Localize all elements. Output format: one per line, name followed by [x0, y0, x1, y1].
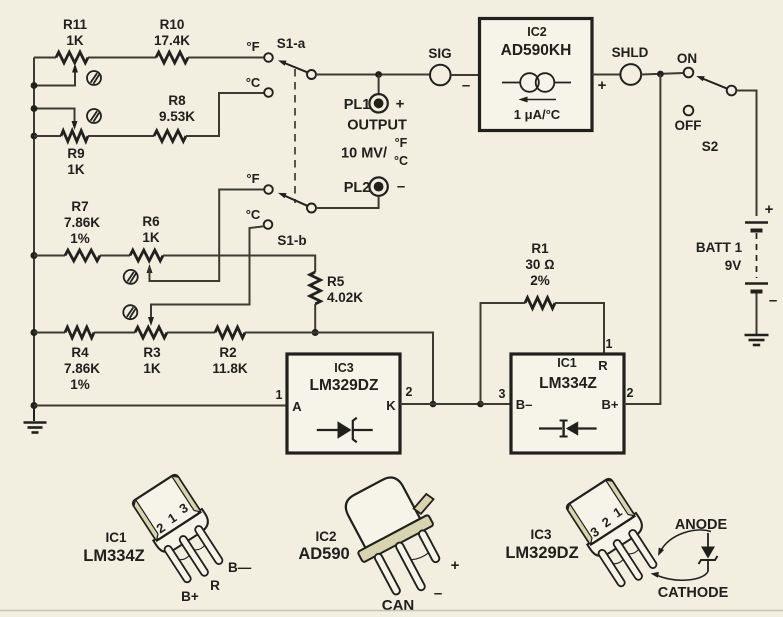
svg-text:R5: R5 — [327, 274, 345, 289]
ground main — [24, 406, 47, 433]
terminal SIG — [428, 46, 451, 85]
svg-text:–: – — [397, 178, 405, 195]
svg-text:–: – — [769, 292, 777, 309]
svg-text:2: 2 — [406, 385, 413, 399]
svg-text:IC3: IC3 — [334, 361, 354, 375]
node junction IC1 B+ rail — [657, 71, 664, 78]
svg-text:S2: S2 — [702, 139, 719, 154]
svg-text:1 μA/°C: 1 μA/°C — [514, 107, 561, 122]
svg-text:IC2: IC2 — [315, 529, 336, 544]
svg-text:11.8K: 11.8K — [212, 361, 248, 376]
svg-text:°F: °F — [246, 171, 259, 186]
svg-text:1%: 1% — [70, 377, 90, 392]
svg-text:B+: B+ — [602, 397, 619, 412]
wire S1-b C to R3 wiper — [151, 226, 264, 313]
svg-text:7.86K: 7.86K — [64, 215, 100, 230]
potentiometer wiper R6 to S1-b F — [147, 190, 265, 282]
wire R6 to R5 top — [163, 256, 315, 273]
trimmer screw R11 — [87, 71, 101, 85]
label IC3 package — [505, 527, 578, 562]
zener diode symbol inside IC3 — [317, 418, 373, 442]
svg-text:2: 2 — [627, 386, 634, 400]
svg-text:S1-b: S1-b — [277, 233, 306, 248]
svg-text:PL1: PL1 — [344, 97, 371, 113]
svg-text:IC3: IC3 — [530, 527, 552, 542]
wire S1-b pole to PL2 — [316, 197, 379, 209]
svg-text:–: – — [434, 585, 442, 602]
ground battery — [745, 335, 769, 345]
wire rail to R7 — [34, 255, 65, 257]
current source symbol 1uA/C — [502, 73, 571, 122]
battery BATT1 — [696, 201, 777, 309]
svg-text:ON: ON — [677, 51, 697, 66]
resistor R10 — [154, 17, 190, 63]
svg-text:3: 3 — [499, 387, 506, 401]
svg-text:1K: 1K — [66, 33, 84, 48]
svg-text:B+: B+ — [181, 589, 199, 604]
svg-text:°C: °C — [246, 75, 261, 90]
wire S1 gang dashed link — [294, 69, 296, 203]
wire battery to ground — [756, 294, 758, 335]
svg-text:R8: R8 — [168, 93, 186, 108]
wire R3 to R2 — [167, 332, 215, 334]
svg-text:°F: °F — [395, 136, 408, 150]
wire R1 right to IC1 R pin — [555, 303, 604, 354]
svg-text:S1-a: S1-a — [277, 36, 306, 51]
svg-text:R7: R7 — [71, 199, 88, 214]
resistor R11 — [56, 17, 88, 63]
svg-text:1: 1 — [276, 388, 283, 402]
svg-text:30 Ω: 30 Ω — [525, 257, 554, 272]
svg-text:1K: 1K — [143, 361, 161, 376]
wire R2 to IC3 K node — [245, 333, 433, 405]
svg-text:+: + — [598, 77, 607, 94]
trimmer screw R3 — [123, 305, 137, 319]
wire IC1 B+ to rail up — [624, 74, 660, 404]
label 10 MV per degree — [341, 136, 408, 168]
svg-text:LM329DZ: LM329DZ — [505, 544, 578, 562]
resistor R7 — [64, 199, 100, 261]
svg-text:OFF: OFF — [675, 118, 702, 133]
node junction R11 wiper — [31, 82, 38, 89]
label IC2 package — [298, 529, 349, 563]
svg-text:9.53K: 9.53K — [159, 109, 195, 124]
svg-text:LM329DZ: LM329DZ — [310, 377, 379, 394]
wire SIG to IC2 — [451, 74, 480, 76]
resistor R5 — [310, 272, 363, 305]
wire K node to B- node — [433, 403, 481, 405]
svg-text:2%: 2% — [530, 273, 550, 288]
svg-text:IC1: IC1 — [557, 356, 577, 370]
potentiometer wiper R11 — [34, 64, 78, 86]
svg-text:CAN: CAN — [382, 597, 415, 614]
resistor R6 — [130, 214, 163, 261]
svg-text:LM334Z: LM334Z — [539, 375, 597, 392]
svg-text:IC1: IC1 — [105, 530, 127, 545]
svg-text:LM334Z: LM334Z — [83, 547, 144, 565]
resistor R1 — [525, 241, 555, 308]
transistor package IC3 LM329DZ pictorial — [563, 476, 667, 593]
svg-text:1%: 1% — [70, 231, 90, 246]
wire SHLD to switch S2 — [641, 73, 684, 75]
switch S1-a — [246, 36, 316, 97]
svg-text:R3: R3 — [143, 345, 161, 360]
zener IC3 LM329DZ box — [287, 354, 400, 453]
wire R11 to R10 — [88, 57, 156, 59]
svg-text:10 MV/: 10 MV/ — [341, 146, 387, 162]
op-amp IC2 AD590KH box — [480, 19, 593, 131]
svg-text:PL2: PL2 — [344, 180, 371, 196]
wire S2 to battery — [736, 91, 756, 217]
zener diode symbol pictorial — [699, 533, 718, 572]
svg-text:R6: R6 — [142, 214, 160, 229]
wire R10 to S1-a F terminal — [188, 57, 264, 59]
svg-text:R2: R2 — [219, 345, 236, 360]
wire R7 to R6 — [100, 255, 130, 257]
svg-text:B–: B– — [516, 397, 533, 412]
svg-text:°C: °C — [394, 154, 408, 168]
resistor R3 — [135, 327, 167, 376]
wire R4 to R3 — [94, 332, 135, 334]
resistor R9 — [61, 131, 88, 177]
svg-text:7.86K: 7.86K — [64, 361, 100, 376]
svg-text:1K: 1K — [67, 162, 85, 177]
wire to PL1 — [378, 75, 380, 94]
svg-text:+: + — [765, 201, 774, 218]
node junction IC3 K — [430, 401, 437, 408]
svg-text:4.02K: 4.02K — [327, 290, 363, 305]
node junction bottom rail left — [31, 402, 38, 409]
svg-text:SIG: SIG — [428, 46, 451, 61]
wire IC3 K to node — [400, 403, 433, 405]
node junction R5 bottom — [312, 329, 319, 336]
wire R1 left branch — [481, 303, 526, 404]
wire R8 to S1-a C terminal — [186, 93, 264, 136]
switch S2 — [675, 51, 737, 154]
svg-text:R11: R11 — [63, 17, 88, 32]
svg-text:AD590KH: AD590KH — [501, 42, 572, 59]
jack PL2 — [344, 177, 405, 196]
wire S1-a pole to SIG — [316, 74, 430, 76]
wire left rail — [33, 58, 35, 406]
svg-text:17.4K: 17.4K — [154, 33, 190, 48]
node junction R9 wiper — [31, 105, 38, 112]
pointer arc anode to pin — [658, 530, 711, 556]
resistor R2 — [212, 327, 248, 376]
svg-text:°F: °F — [246, 39, 259, 54]
scan artifact line bottom — [0, 610, 783, 612]
resistor R8 — [154, 93, 195, 141]
svg-text:+: + — [451, 557, 460, 574]
current source IC1 LM334Z box — [511, 354, 624, 453]
wire R5 to bottom row — [314, 304, 316, 333]
jack PL1 — [344, 94, 405, 113]
svg-text:R1: R1 — [531, 241, 549, 256]
trimmer screw R9 — [87, 109, 101, 123]
wire ground rail to IC3 A — [34, 405, 287, 407]
svg-text:R: R — [598, 358, 608, 373]
svg-text:OUTPUT: OUTPUT — [347, 118, 407, 134]
node junction R7 left — [31, 252, 38, 259]
svg-text:R: R — [210, 578, 220, 593]
label IC1 package — [83, 530, 144, 565]
wire IC2 to SHLD — [592, 74, 620, 76]
switch S1-b — [246, 171, 316, 248]
node junction R4 left — [31, 329, 38, 336]
node junction R9 left — [31, 133, 38, 140]
svg-text:B—: B— — [228, 560, 252, 575]
trimmer screw R6 — [124, 270, 138, 284]
transistor package IC1 LM334Z pictorial — [129, 472, 233, 589]
wire top row to R11 — [34, 57, 56, 59]
svg-text:CATHODE: CATHODE — [658, 585, 729, 601]
svg-text:BATT 1: BATT 1 — [696, 240, 743, 255]
svg-text:AD590: AD590 — [298, 545, 349, 563]
svg-text:°C: °C — [246, 207, 261, 222]
svg-text:A: A — [292, 399, 302, 414]
wire node to IC1 B- — [481, 403, 512, 405]
potentiometer wiper R3 arrow — [148, 313, 154, 326]
svg-text:SHLD: SHLD — [612, 45, 649, 60]
svg-text:R4: R4 — [71, 345, 89, 360]
wire R9 to R8 — [88, 135, 154, 137]
node junction IC1 B- — [477, 401, 484, 408]
svg-text:9V: 9V — [725, 258, 742, 273]
svg-text:IC2: IC2 — [527, 25, 547, 39]
terminal SHLD — [612, 45, 649, 85]
svg-text:R10: R10 — [160, 17, 185, 32]
potentiometer wiper R9 — [34, 109, 78, 131]
pointer arc cathode to pin — [651, 572, 709, 581]
wire rail to R9 — [34, 135, 61, 137]
svg-text:+: + — [396, 96, 405, 113]
svg-text:1K: 1K — [142, 230, 160, 245]
resistor R4 — [64, 327, 100, 392]
node junction output — [375, 71, 382, 78]
svg-text:K: K — [386, 398, 396, 413]
diode symbol inside IC1 — [539, 421, 597, 437]
svg-text:1: 1 — [606, 337, 613, 351]
transistor package IC2 AD590 can pictorial — [333, 463, 469, 609]
wire rail to R4 — [34, 332, 65, 334]
svg-text:–: – — [462, 77, 470, 94]
svg-text:R9: R9 — [67, 146, 84, 161]
